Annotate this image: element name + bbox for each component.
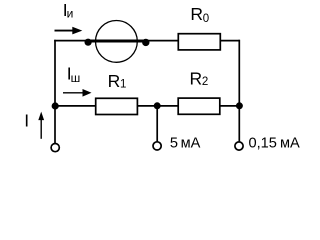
- junction dot: between R1 and R2: [154, 102, 161, 109]
- svg-text:R2: R2: [190, 69, 209, 89]
- terminal: left output (open circle): [51, 144, 59, 152]
- meter: moving-coil measuring element (circle): [96, 21, 138, 63]
- resistor R0 (body): [178, 34, 220, 50]
- resistor R1 (body): [96, 98, 138, 114]
- resistor R2 (body): [178, 98, 220, 114]
- wire: middle terminal stub: [156, 106, 158, 141]
- junction dot: left node of middle row: [52, 102, 59, 109]
- svg-text:0,15 мА: 0,15 мА: [249, 136, 300, 152]
- svg-text:5 мА: 5 мА: [170, 136, 201, 152]
- svg-text:Iи: Iи: [63, 0, 74, 21]
- junction dot: right node of middle row: [236, 102, 243, 109]
- arrow: Iш direction: [63, 89, 92, 97]
- arrow: Iи direction: [55, 27, 83, 35]
- junction dot: left of meter: [85, 39, 92, 46]
- terminal: right output 0,15 mA (open circle): [235, 142, 243, 150]
- arrow: I direction (upward): [38, 112, 44, 139]
- junction dot: right of meter: [142, 39, 149, 46]
- terminal: middle output 5 mA (open circle): [153, 142, 161, 150]
- svg-text:R0: R0: [190, 4, 209, 25]
- wire: middle horizontal (R1-R2 row): [54, 105, 240, 107]
- meter: thick bar through circle: [88, 39, 146, 42]
- svg-text:I: I: [24, 111, 29, 131]
- wire: left vertical branch: [54, 40, 56, 143]
- wire: right vertical branch: [238, 40, 240, 142]
- svg-text:R1: R1: [108, 71, 127, 91]
- wire: top horizontal (node from left branch to R0 branch): [54, 40, 240, 42]
- svg-text:Iш: Iш: [67, 63, 81, 85]
